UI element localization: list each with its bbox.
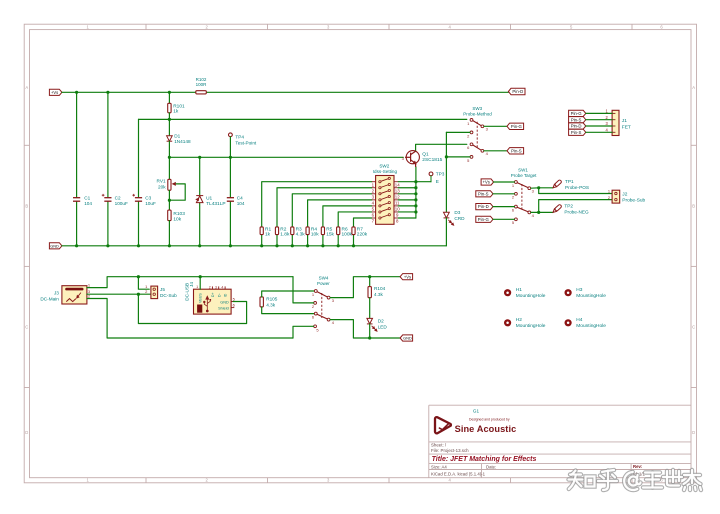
switch SW4 stub pin 5 bbox=[314, 325, 317, 328]
resistor R104 4.3k bbox=[369, 277, 371, 287]
junction V+ rail / J5 bbox=[137, 275, 140, 278]
svg-text:13: 13 bbox=[395, 188, 400, 193]
node Pin-S label at SW3 bbox=[507, 148, 524, 154]
svg-text:Pin-D: Pin-D bbox=[478, 204, 489, 209]
junction Vref/U1 bbox=[198, 156, 201, 159]
svg-text:R2: R2 bbox=[280, 226, 286, 232]
svg-text:10: 10 bbox=[395, 207, 400, 212]
svg-text:TL431LP: TL431LP bbox=[206, 201, 225, 207]
wire ground rail to SW4 pin5 bbox=[293, 326, 314, 338]
svg-text:D: D bbox=[25, 430, 28, 435]
node Pin-S label at SW1 bbox=[476, 191, 493, 197]
svg-text:ID: ID bbox=[224, 293, 228, 297]
node Pin-G label to J1 pin 1 bbox=[569, 110, 586, 116]
svg-text:SW1: SW1 bbox=[518, 167, 528, 172]
wire +Vs to SW1 pin1 bbox=[494, 181, 515, 183]
svg-text:Probe-Sub: Probe-Sub bbox=[622, 197, 645, 203]
wire jack-switch mid rail bbox=[138, 294, 246, 323]
svg-text:J5: J5 bbox=[160, 287, 165, 292]
svg-text:4.3k: 4.3k bbox=[374, 292, 384, 297]
resistor R3 4.3k bbox=[291, 227, 294, 235]
switch SW1 stub pin 5 bbox=[515, 218, 518, 221]
resistor R102 bbox=[196, 91, 207, 94]
junction Vref/RV1 bbox=[168, 156, 171, 159]
svg-text:Shield: Shield bbox=[218, 306, 229, 310]
resistor R5 15k bbox=[321, 227, 324, 235]
power label GND bottom bbox=[400, 335, 413, 341]
svg-text:R102: R102 bbox=[196, 77, 207, 82]
svg-text:LED: LED bbox=[378, 324, 388, 329]
svg-text:TP4: TP4 bbox=[235, 134, 244, 139]
svg-text:Pin-S: Pin-S bbox=[511, 148, 522, 153]
wire Vref horizontal to Q1 base bbox=[169, 156, 403, 158]
junction +Vs/R101 bbox=[168, 91, 171, 94]
connector J4 DC-USB bbox=[194, 289, 232, 314]
wire RV1 top bbox=[168, 157, 170, 179]
junction CRD bus / pin5 bbox=[445, 155, 448, 158]
svg-text:Pin-G: Pin-G bbox=[511, 124, 523, 129]
wire C3 hang vertical bbox=[138, 119, 140, 245]
svg-text:2: 2 bbox=[209, 285, 211, 289]
title block frame bbox=[429, 405, 691, 478]
transistor Q1 2SC1815 bbox=[406, 151, 419, 164]
svg-text:R103: R103 bbox=[173, 211, 185, 217]
svg-text:Probe Target: Probe Target bbox=[511, 173, 537, 178]
resistor R105 4.3k bbox=[260, 297, 263, 307]
shunt regulator U1 TL431LP bbox=[196, 196, 203, 203]
node Pin-D global label bbox=[508, 88, 525, 94]
junction GND resistor bank bbox=[260, 244, 263, 247]
mounting hole H2 bbox=[504, 319, 511, 326]
wire TP1 node to J2 pin1 bbox=[539, 188, 612, 194]
svg-text:RV1: RV1 bbox=[157, 178, 166, 183]
wire D1 to Vref node bbox=[168, 141, 170, 157]
svg-text:2: 2 bbox=[608, 195, 610, 200]
svg-text:Designed and produced by: Designed and produced by bbox=[469, 418, 510, 422]
svg-text:10uF: 10uF bbox=[145, 201, 156, 206]
ground rail GND bbox=[49, 243, 62, 249]
wire TP2 node to J2 pin2 bbox=[539, 200, 612, 213]
wire R4 to SW2 pin 4 bbox=[307, 235, 309, 246]
wire R6 to SW2 pin 6 bbox=[337, 235, 339, 246]
svg-text:H3: H3 bbox=[576, 287, 582, 293]
wire J3 pin2 to ground rail bbox=[87, 299, 293, 339]
junction +Vs/C2 bbox=[106, 91, 109, 94]
resistor R103 10k bbox=[168, 210, 171, 221]
wire R105 top to SW4 pin1 bbox=[262, 291, 315, 297]
svg-text:1: 1 bbox=[608, 189, 610, 194]
power label +Vs bottom bbox=[400, 274, 413, 280]
switch SW4 stub pin 2 bbox=[314, 302, 317, 305]
svg-text:Pin-D: Pin-D bbox=[512, 89, 523, 94]
svg-text:A: A bbox=[692, 85, 695, 90]
wire RV1 bottom to R103 bbox=[168, 190, 170, 210]
switch SW3 stub pin 5 bbox=[470, 156, 473, 159]
svg-text:100k: 100k bbox=[342, 232, 353, 238]
svg-text:C4: C4 bbox=[237, 196, 243, 201]
svg-text:B: B bbox=[692, 204, 695, 209]
svg-text:R5: R5 bbox=[326, 226, 332, 232]
wire R105 bottom to SW4 pin6 bbox=[262, 307, 315, 314]
wire RV1 wiper loop bbox=[169, 184, 185, 200]
wire C2 vertical bbox=[107, 92, 109, 246]
wire SW2 pin8 corner bbox=[398, 217, 416, 219]
svg-text:R3: R3 bbox=[296, 226, 302, 232]
svg-text:14: 14 bbox=[395, 182, 400, 187]
svg-text:1k: 1k bbox=[265, 232, 271, 238]
svg-text:GND: GND bbox=[403, 336, 412, 341]
wire J3 pin3 to jack-switch net bbox=[87, 293, 151, 295]
svg-text:10k: 10k bbox=[173, 216, 181, 222]
wire J1 pin 1 bbox=[586, 112, 612, 114]
svg-text:C1: C1 bbox=[84, 196, 90, 201]
pin J4 shield stub 6 bbox=[231, 307, 234, 309]
junction node A / R101 bbox=[168, 118, 171, 121]
wire SW3 pin5 stub from bus bbox=[446, 156, 470, 158]
wire SW3 throw3 to Pin-G label bbox=[484, 125, 507, 127]
svg-text:TP2: TP2 bbox=[564, 203, 573, 208]
wire Pin-D to SW1 pin6 bbox=[493, 206, 514, 208]
test point TP3 E bbox=[429, 172, 433, 176]
capacitor C4 104 bbox=[229, 198, 232, 202]
junction V+ rail / J4 bbox=[199, 275, 202, 278]
svg-text:B: B bbox=[25, 204, 28, 209]
svg-text:20k: 20k bbox=[158, 184, 166, 189]
wire CRD bus vertical bbox=[445, 132, 447, 211]
svg-text:Probe-POS: Probe-POS bbox=[565, 185, 589, 190]
capacitor C3 10uF bbox=[137, 198, 140, 202]
wire J3 pin1 to V+ rail bbox=[87, 277, 293, 288]
svg-text:File: Project-13.sch: File: Project-13.sch bbox=[431, 448, 469, 453]
svg-text:R6: R6 bbox=[342, 226, 348, 232]
svg-text:Pin-G: Pin-G bbox=[571, 111, 583, 116]
svg-text:FET: FET bbox=[622, 124, 631, 130]
wire U1 vertical bbox=[199, 157, 201, 246]
potentiometer RV1 20k bbox=[168, 179, 171, 190]
svg-text:R105: R105 bbox=[266, 297, 278, 302]
junction +Vs/C1 bbox=[75, 91, 78, 94]
svg-text:MountingHole: MountingHole bbox=[516, 323, 546, 329]
svg-text:104: 104 bbox=[237, 201, 245, 206]
mounting hole H3 bbox=[565, 289, 572, 296]
svg-text:E: E bbox=[436, 179, 439, 184]
wire R101 bottom to D1 bbox=[168, 113, 170, 135]
svg-text:Sine Acoustic: Sine Acoustic bbox=[455, 424, 517, 434]
svg-text:SW3: SW3 bbox=[472, 106, 482, 111]
svg-text:2SC1815: 2SC1815 bbox=[422, 157, 442, 163]
svg-text:12: 12 bbox=[395, 195, 400, 200]
junction jack-switch net bbox=[137, 293, 140, 296]
logo Sine Acoustic bbox=[435, 417, 451, 433]
resistor R7 220k bbox=[352, 227, 355, 235]
wire J5 pin1 drop bbox=[138, 277, 149, 290]
svg-text:1.8k: 1.8k bbox=[280, 232, 290, 238]
mounting hole H1 bbox=[504, 289, 511, 296]
svg-text:MountingHole: MountingHole bbox=[576, 323, 606, 329]
svg-text:220k: 220k bbox=[357, 232, 368, 238]
wire node A horizontal y=119.4 bbox=[139, 118, 467, 120]
wire Pin-G to SW1 pin5 bbox=[493, 218, 514, 220]
diode D1 1N4148 bbox=[167, 136, 173, 141]
svg-text:100R: 100R bbox=[196, 82, 208, 87]
svg-text:KiCad E.D.A. kicad (5.1.4)-1: KiCad E.D.A. kicad (5.1.4)-1 bbox=[431, 472, 486, 477]
svg-text:GND: GND bbox=[220, 300, 229, 304]
resistor R2 1.8k bbox=[275, 227, 278, 235]
wire Q1 emitter bus bbox=[415, 167, 417, 218]
svg-text:+Vs: +Vs bbox=[483, 180, 490, 185]
resistor R101 bbox=[168, 103, 171, 113]
svg-text:A: A bbox=[25, 85, 28, 90]
svg-text:Q1: Q1 bbox=[422, 152, 429, 158]
wire SW3 throw4 to Pin-S label bbox=[484, 150, 507, 152]
svg-text:H4: H4 bbox=[576, 317, 582, 323]
svg-text:Title: JFET Matching for Effec: Title: JFET Matching for Effects bbox=[432, 456, 537, 463]
wire C4 vertical bbox=[229, 157, 231, 246]
svg-text:Pin-S: Pin-S bbox=[571, 117, 582, 122]
svg-text:SW2: SW2 bbox=[379, 163, 389, 168]
svg-text:Probe-Method: Probe-Method bbox=[463, 112, 492, 117]
svg-text:4.3k: 4.3k bbox=[296, 232, 306, 238]
connector J1 FET bbox=[612, 110, 619, 135]
switch SW3 stub pin 2 bbox=[470, 131, 473, 134]
wire Pin-S to SW1 pin2 bbox=[493, 193, 514, 195]
svg-text:C3: C3 bbox=[145, 196, 151, 201]
power label +Vs at SW1 bbox=[481, 179, 494, 185]
capacitor C1 104 bbox=[75, 198, 78, 202]
wire V+ rail to SW4 pin2 bbox=[293, 277, 314, 303]
svg-text:J2: J2 bbox=[622, 191, 627, 197]
test point TP4 bbox=[229, 133, 233, 137]
svg-text:Pin-S: Pin-S bbox=[571, 130, 582, 135]
wire R5 to SW2 pin 5 bbox=[322, 235, 324, 246]
node Pin-S label to J1 pin 4 bbox=[569, 129, 586, 135]
svg-text:15k: 15k bbox=[326, 232, 334, 238]
connector J5 DC-Sub bbox=[151, 286, 158, 299]
svg-text:U1: U1 bbox=[206, 195, 212, 201]
svg-text:Date:: Date: bbox=[486, 464, 496, 469]
svg-text:Probe-NEG: Probe-NEG bbox=[564, 210, 589, 215]
svg-text:D: D bbox=[692, 430, 695, 435]
wire J4 GND pin 5 bbox=[231, 301, 233, 303]
wire R1 to SW2 pin 1 bbox=[261, 235, 263, 246]
svg-text:DC-Main: DC-Main bbox=[40, 296, 59, 301]
junction Vref/TP4/C4 bbox=[229, 156, 232, 159]
led D2 bbox=[367, 318, 373, 324]
junction +Vs out / R104 bbox=[368, 275, 371, 278]
svg-text:Sheet: /: Sheet: / bbox=[431, 442, 447, 447]
junction GND out / D2 bbox=[368, 336, 371, 339]
svg-text:MountingHole: MountingHole bbox=[576, 293, 606, 299]
svg-text:H1: H1 bbox=[516, 287, 522, 293]
svg-text:4: 4 bbox=[221, 285, 223, 289]
junction TP2 node bbox=[537, 211, 540, 214]
connector J3 DC-Main barrel jack bbox=[62, 286, 87, 304]
svg-text:H2: H2 bbox=[516, 317, 522, 323]
svg-text:R4: R4 bbox=[311, 226, 317, 232]
svg-text:D1: D1 bbox=[174, 134, 180, 139]
wire J1 pin 2 bbox=[586, 119, 612, 121]
svg-text:DC-Sub: DC-Sub bbox=[160, 293, 177, 298]
svg-text:Size: A4: Size: A4 bbox=[431, 464, 447, 469]
svg-text:Power: Power bbox=[317, 281, 330, 286]
svg-text:R101: R101 bbox=[173, 104, 185, 110]
svg-text:3: 3 bbox=[215, 285, 217, 289]
wire Q1 collector to SW3 bbox=[416, 144, 467, 151]
svg-text:R7: R7 bbox=[357, 226, 363, 232]
wire J4 VBUS pin bbox=[199, 277, 201, 290]
wire R104 to D2 bbox=[369, 298, 371, 319]
watermark zhihu bbox=[569, 470, 702, 490]
svg-text:VBUS: VBUS bbox=[199, 293, 203, 303]
wire R3 to SW2 pin 3 bbox=[291, 235, 293, 246]
test point TP1 Probe-POS bbox=[552, 179, 562, 189]
svg-text:GND: GND bbox=[50, 243, 59, 248]
resistor R1 1k bbox=[260, 227, 263, 235]
wire R103 to GND rail bbox=[168, 221, 170, 246]
node Pin-D label to J1 pin 3 bbox=[569, 123, 586, 129]
capacitor C2 100uF bbox=[107, 198, 110, 202]
svg-text:J4: J4 bbox=[189, 282, 194, 287]
svg-text:4.3k: 4.3k bbox=[266, 303, 276, 308]
wire C1 vertical bbox=[76, 92, 78, 246]
svg-text:J3: J3 bbox=[54, 290, 59, 295]
wire D3 to GND rail bbox=[445, 218, 447, 246]
node Pin-G label at SW1 bbox=[476, 216, 493, 222]
svg-text:Pin-S: Pin-S bbox=[478, 191, 489, 196]
wire SW1 throw4 to TP2 bbox=[531, 211, 553, 213]
test point TP2 Probe-NEG bbox=[552, 204, 562, 214]
switch SW1 stub pin 2 bbox=[515, 192, 518, 195]
svg-text:1: 1 bbox=[196, 285, 198, 289]
wire R101 to node A bbox=[168, 92, 170, 103]
wire +Vs rail left of R102 bbox=[62, 91, 196, 93]
resistor R4 10k bbox=[306, 227, 309, 235]
svg-text:1k: 1k bbox=[173, 109, 179, 115]
wire TP3 stub bbox=[416, 181, 431, 183]
junction RV1 bottom node bbox=[168, 199, 171, 202]
svg-text:+Vs: +Vs bbox=[51, 90, 58, 95]
wire D2 to GND out bbox=[369, 324, 371, 338]
junction emitter bus rows bbox=[414, 180, 417, 183]
svg-text:104: 104 bbox=[84, 201, 92, 206]
svg-text:R104: R104 bbox=[374, 286, 386, 291]
svg-text:D3: D3 bbox=[454, 210, 460, 215]
wire SW2 right rows to emitter bus bbox=[398, 181, 416, 183]
mounting hole H4 bbox=[565, 319, 572, 326]
wire SW4 throw3 to +Vs out bbox=[330, 277, 400, 298]
svg-text:C: C bbox=[25, 325, 28, 330]
wire SW4 throw4 to GND out bbox=[330, 320, 400, 338]
svg-text:C2: C2 bbox=[115, 196, 121, 201]
svg-text:C: C bbox=[692, 325, 695, 330]
svg-text:TP3: TP3 bbox=[436, 172, 445, 177]
svg-text:J1: J1 bbox=[622, 118, 627, 124]
svg-text:Test-Point: Test-Point bbox=[235, 140, 257, 145]
svg-text:+Vs: +Vs bbox=[404, 274, 411, 279]
node Pin-S label to J1 pin 2 bbox=[569, 117, 586, 123]
svg-text:Pin-D: Pin-D bbox=[571, 124, 582, 129]
svg-text:R1: R1 bbox=[265, 226, 271, 232]
svg-text:Idss-Setting: Idss-Setting bbox=[373, 169, 398, 174]
svg-text:11: 11 bbox=[395, 201, 400, 206]
svg-text:TP1: TP1 bbox=[565, 179, 574, 184]
svg-text:Pin-G: Pin-G bbox=[478, 217, 490, 222]
wire SW3 pin2 stub from bus bbox=[446, 131, 470, 133]
wire R2 to SW2 pin 2 bbox=[276, 235, 278, 246]
svg-text:100uF: 100uF bbox=[115, 201, 128, 206]
wire J1 pin 3 bbox=[586, 125, 612, 127]
svg-text:G1: G1 bbox=[473, 408, 480, 413]
node Pin-G label at SW3 bbox=[507, 123, 524, 129]
svg-text:D-: D- bbox=[217, 293, 221, 297]
svg-text:D2: D2 bbox=[378, 318, 384, 323]
svg-text:CRD: CRD bbox=[454, 216, 465, 221]
svg-text:SW4: SW4 bbox=[319, 275, 329, 280]
connector J2 Probe-Sub bbox=[612, 190, 620, 203]
power flag +Vs bbox=[49, 89, 62, 95]
svg-text:DC-USB: DC-USB bbox=[184, 283, 189, 301]
junction TP1 node bbox=[537, 186, 540, 189]
svg-text:1N4148: 1N4148 bbox=[174, 139, 191, 144]
svg-text:D+: D+ bbox=[211, 293, 215, 297]
wire SW1 throw3 to TP1 bbox=[531, 187, 553, 189]
svg-text:MountingHole: MountingHole bbox=[516, 293, 546, 299]
svg-text:10k: 10k bbox=[311, 232, 319, 238]
resistor R6 100k bbox=[337, 227, 340, 235]
node Pin-D label at SW1 bbox=[476, 204, 493, 210]
wire Pin-D rail right of R102 bbox=[206, 91, 508, 93]
wire J1 pin 4 bbox=[586, 131, 612, 133]
wire R7 to SW2 pin 7 bbox=[353, 235, 355, 246]
diode D3 CRD bbox=[444, 212, 450, 218]
svg-text:Rev:: Rev: bbox=[633, 464, 643, 469]
